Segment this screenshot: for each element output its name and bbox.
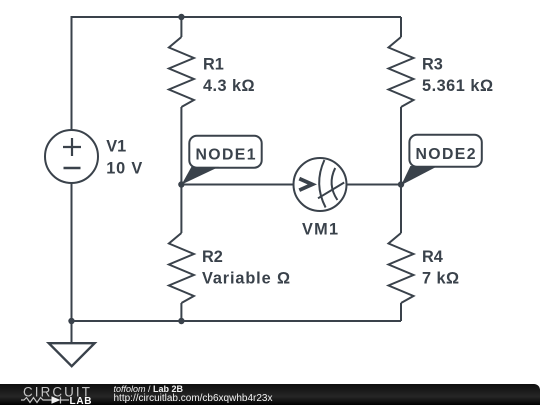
wire top rail [72, 16, 402, 18]
svg-text:5.361 kΩ: 5.361 kΩ [422, 77, 493, 95]
node junction dot R2 bottom [178, 318, 184, 324]
label R3 value [422, 56, 493, 96]
svg-text:R4: R4 [422, 248, 443, 266]
node NODE2 label [401, 135, 482, 185]
label R1 value [203, 56, 255, 96]
ground [49, 343, 95, 366]
wire NODE1 to VM1 [181, 184, 293, 186]
label V1 value [106, 137, 142, 177]
node NODE1 label [182, 136, 262, 185]
wire left rail bottom (V1 to bottom rail) [71, 183, 73, 321]
CircuitLab logo [0, 384, 110, 405]
footer credit line [114, 384, 184, 394]
footer bar [0, 384, 540, 405]
wire middle branch top lead [180, 17, 182, 37]
wire right branch mid (R3 to R4) [400, 107, 402, 233]
resistor R1 [169, 37, 194, 107]
svg-text:7 kΩ: 7 kΩ [422, 270, 459, 288]
svg-text:10 V: 10 V [106, 160, 142, 178]
node junction dot ground [68, 318, 74, 324]
svg-text:NODE2: NODE2 [416, 146, 476, 163]
footer url [114, 393, 273, 404]
svg-text:4.3 kΩ: 4.3 kΩ [203, 77, 255, 95]
label R4 value [422, 248, 459, 288]
wire right branch top lead [400, 17, 402, 37]
voltage source V1 [45, 130, 98, 183]
svg-text:NODE1: NODE1 [196, 147, 256, 164]
label R2 value [202, 248, 290, 288]
wire ground lead [71, 321, 73, 343]
wire middle branch mid (R1 to R2) [180, 107, 182, 233]
svg-text:R2: R2 [202, 248, 223, 266]
svg-text:V1: V1 [106, 137, 126, 155]
wire bottom rail [72, 320, 402, 322]
svg-text:Variable Ω: Variable Ω [202, 270, 290, 288]
voltmeter VM1 [294, 158, 347, 211]
resistor R4 [389, 233, 414, 303]
svg-text:R1: R1 [203, 56, 224, 74]
node junction dot top [178, 14, 184, 20]
wire middle branch bottom lead [180, 303, 182, 321]
node junction dot NODE1 [178, 181, 184, 187]
svg-text:R3: R3 [422, 56, 443, 74]
node junction dot NODE2 [398, 181, 404, 187]
svg-text:VM1: VM1 [302, 221, 338, 239]
wire right branch bottom lead [400, 303, 402, 321]
resistor R2 [169, 233, 194, 303]
wire left rail top (to V1) [71, 16, 73, 130]
wire VM1 to NODE2 [347, 184, 402, 186]
resistor R3 [389, 37, 414, 107]
svg-text:LAB: LAB [70, 396, 92, 405]
